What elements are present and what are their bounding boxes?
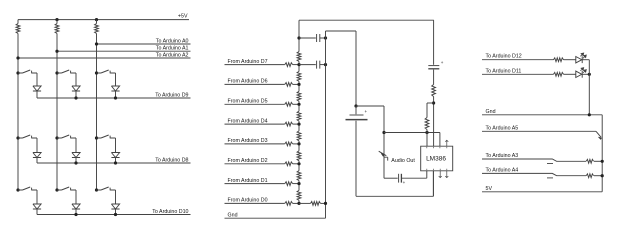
svg-text:To Arduino D8: To Arduino D8 (155, 157, 188, 163)
wire diode D22 to row line (75, 158, 77, 164)
svg-text:To Arduino D10: To Arduino D10 (152, 209, 188, 215)
resistor R ladder 3 (297, 91, 301, 101)
wire R12 to LED2 (564, 73, 576, 75)
wire from Arduino D1 (225, 183, 285, 185)
junction coupling cap node (354, 104, 357, 107)
wire Gnd rail right (482, 114, 602, 116)
resistor 2R terminator (311, 202, 321, 206)
capacitor C3 bottom plate (346, 119, 368, 121)
wire resistor D6 to bus (293, 83, 299, 85)
resistor R9 (432, 85, 436, 97)
junction switch S12 to column (55, 71, 58, 74)
wire diode D12 to row line (75, 91, 77, 98)
junction column 3 to +5V rail (95, 18, 98, 21)
svg-text:To Arduino D9: To Arduino D9 (155, 92, 188, 98)
diode D32 (72, 204, 80, 209)
wire supply drop (433, 20, 435, 65)
junction ground line terminator (324, 202, 327, 205)
junction ground line C1 (324, 36, 327, 39)
svg-text:+: + (403, 180, 406, 185)
pin LM386 top 3 (439, 133, 441, 147)
switch S13 contact and wire to diode (110, 71, 115, 86)
wire to Arduino A0 (97, 43, 191, 45)
potentiometer RV1 wiper arrowhead (598, 137, 601, 140)
svg-text:From Arduino D3: From Arduino D3 (228, 138, 268, 144)
svg-text:To Arduino A1: To Arduino A1 (156, 46, 189, 52)
wire bus segment 2b (298, 81, 300, 84)
capacitor C1 plates (317, 34, 320, 42)
junction column 2 to +5V rail (55, 18, 58, 21)
wire +5V rail (18, 19, 189, 21)
wire bus segment 2 (298, 65, 300, 72)
switch S31 contact and wire to diode (32, 188, 37, 204)
svg-text:From Arduino D5: From Arduino D5 (228, 99, 268, 105)
wire LED1 to vertical (583, 59, 590, 61)
switch S21 lever (18, 135, 30, 138)
capacitor C3 top plate (350, 114, 364, 116)
svg-text:From Arduino D4: From Arduino D4 (228, 118, 268, 124)
junction switch S31 to column (16, 188, 19, 191)
LED LED1 arrow 1 (580, 53, 583, 56)
junction bus node D0 (297, 202, 300, 205)
switch SW10 contact bar (547, 163, 553, 165)
switch S33 contact and wire to diode (110, 188, 115, 204)
diode D13 (111, 86, 119, 91)
junction col3/A0 (95, 42, 98, 45)
wire bus to capacitor C1 (299, 37, 316, 39)
wire R13 to 5V vertical (594, 160, 602, 162)
wire to Arduino A5 (482, 130, 596, 132)
resistor R ladder 7 (297, 171, 301, 181)
switch S12 lever (57, 70, 69, 73)
wire resistor D3 to bus (293, 143, 299, 145)
resistor R ladder 1 (297, 52, 301, 62)
svg-text:To Arduino D12: To Arduino D12 (486, 54, 522, 60)
resistor 2R D3 (285, 142, 293, 146)
wire bus segment 3 (298, 84, 300, 91)
switch S23 lever (97, 135, 109, 138)
switch S32 lever (57, 187, 69, 190)
wire resistor D2 to bus (293, 163, 299, 165)
wire to gain resistor (427, 102, 434, 104)
junction bus node D3 (297, 142, 300, 145)
junction bus node D7 (297, 63, 300, 66)
wire to Arduino A4 with switch jog (482, 173, 586, 175)
wire DAC output top (299, 19, 434, 21)
wire ground line vertical (325, 31, 327, 218)
svg-text:To Arduino A5: To Arduino A5 (486, 125, 519, 131)
resistor R ladder 6 (297, 151, 301, 161)
pin stub LM386 top 4 (445, 140, 448, 146)
junction bus node D5 (297, 103, 300, 106)
svg-text:From Arduino D0: From Arduino D0 (228, 198, 268, 204)
pin stub LM386 bottom 4 (445, 171, 448, 178)
resistor R ladder 2 (297, 71, 301, 81)
wire bus segment 7 (298, 164, 300, 171)
svg-text:From Arduino D1: From Arduino D1 (228, 178, 268, 184)
capacitor C3 top lead (355, 106, 357, 114)
junction bus node D1 (297, 182, 300, 185)
wire row to Arduino D9 (37, 97, 191, 99)
resistor 2R D2 (285, 162, 293, 166)
wire column 2 (56, 20, 58, 190)
wire audio to gain node and LM386 top pin 3 (384, 132, 440, 134)
wire resistor D4 to bus (293, 123, 299, 125)
resistor 2R D6 (285, 83, 293, 87)
wire cap node to audio tap (356, 105, 384, 107)
wire bus segment 4b (298, 121, 300, 124)
switch SW11 contact bar (547, 177, 553, 179)
resistor 2R D4 (285, 122, 293, 126)
junction switch S13 to column (95, 71, 98, 74)
capacitor C4 top plate (428, 65, 439, 67)
wire from Arduino D5 (225, 103, 285, 105)
junction gain node (425, 131, 428, 134)
wire D0 node to terminator (299, 202, 311, 204)
junction col2/A1 (55, 50, 58, 53)
terminal Audio Out hook (384, 157, 388, 160)
wire terminator to ground line (321, 202, 326, 204)
diode D23 (111, 153, 119, 158)
resistor R11 (554, 58, 564, 62)
capacitor C5 plate right (400, 174, 402, 183)
svg-text:From Arduino D7: From Arduino D7 (228, 59, 268, 65)
junction bus node D6 (297, 83, 300, 86)
wire right vertical (601, 115, 603, 192)
wire bus segment 5 (298, 124, 300, 131)
LED LED2 triangle (576, 71, 582, 77)
resistor R ladder 5 (297, 131, 301, 141)
wire capacitor C2 to ground line (320, 64, 326, 66)
svg-text:From Arduino D6: From Arduino D6 (228, 79, 268, 85)
svg-text:+: + (365, 109, 368, 114)
wire R11 to LED1 (564, 59, 576, 61)
wire 5V rail right (482, 191, 602, 193)
wire column 3 (96, 20, 98, 190)
wire R10 to LM386 top pin 1 (426, 130, 428, 147)
switch S32 contact and wire to diode (71, 188, 76, 204)
switch S12 contact and wire to diode (71, 71, 76, 86)
svg-text:To Arduino A3: To Arduino A3 (486, 153, 519, 159)
svg-text:From Arduino D2: From Arduino D2 (228, 158, 268, 164)
wire from Arduino D6 (225, 83, 285, 85)
resistor pull-up column 3 (95, 24, 99, 34)
wire resistor D7 to bus (293, 64, 299, 66)
wire bus segment 6 (298, 144, 300, 151)
wire C4 to R9 (433, 70, 435, 85)
wire row to Arduino D10 (37, 214, 191, 216)
resistor 2R D0 (285, 202, 293, 206)
terminal Audio Out arrow shaft (379, 151, 387, 156)
junction bus node D2 (297, 162, 300, 165)
resistor pull-up column 2 (55, 24, 59, 34)
wire bus segment 1b (298, 62, 300, 65)
resistor R ladder 4 (297, 111, 301, 121)
wire bus segment 6b (298, 161, 300, 164)
wire bus to capacitor C2 (299, 64, 316, 66)
resistor pull-up column 1 (16, 24, 20, 34)
svg-text:To Arduino A4: To Arduino A4 (486, 167, 519, 173)
wire audio tap vertical (383, 106, 385, 178)
LED LED2 arrow 1 (580, 68, 583, 71)
resistor 2R D1 (285, 182, 293, 186)
svg-text:Gnd: Gnd (228, 212, 238, 218)
junction row D8 col3 (114, 161, 117, 164)
pin LM386 bottom 2 (432, 171, 434, 197)
wire output cap right segment (401, 177, 426, 179)
junction Gnd/LED vertical (588, 113, 591, 116)
wire column 1 (17, 20, 19, 190)
junction row D10 col2 (74, 213, 77, 216)
wire bus segment 8 (298, 184, 300, 191)
resistor R13 (586, 159, 593, 163)
wire bus segment 7b (298, 181, 300, 184)
diode D11 (33, 86, 41, 91)
junction col1/A2 (16, 56, 19, 59)
capacitor C5 plate left (398, 174, 400, 183)
wire to Arduino D11 (482, 73, 554, 75)
wire from Arduino D7 (225, 64, 285, 66)
wire bus segment 5b (298, 141, 300, 144)
wire capacitor C1 to ground line (320, 37, 326, 39)
pin marks LM386 bottom inside (427, 169, 447, 171)
switch S11 contact and wire to diode (32, 71, 37, 86)
LED LED1 arrow 2 (583, 55, 586, 58)
pin marks LM386 top inside (427, 147, 447, 149)
svg-text:Audio Out: Audio Out (391, 158, 415, 164)
resistor R12 (554, 72, 564, 76)
wire bus top segment (298, 20, 300, 51)
wire LED vertical to Gnd (588, 60, 590, 115)
diode D33 (111, 204, 119, 209)
capacitor C4 bottom plate (428, 68, 439, 70)
wire to Arduino A3 with switch jog (482, 159, 586, 161)
wire resistor D1 to bus (293, 183, 299, 185)
junction bus node D4 (297, 123, 300, 126)
wire diode D23 to row line (115, 158, 117, 164)
switch S31 lever (18, 187, 30, 190)
capacitor C2 plates (317, 61, 320, 69)
wire from Arduino D2 (225, 163, 285, 165)
junction row D8 col2 (74, 161, 77, 164)
junction row D10 col3 (114, 213, 117, 216)
wire row to Arduino D8 (37, 162, 191, 164)
LED LED2 arrow 2 (583, 70, 586, 73)
junction switch S21 to column (16, 136, 19, 139)
switch S13 lever (97, 70, 109, 73)
junction R14/5V (601, 174, 604, 177)
wire gain resistor top lead (426, 103, 428, 118)
svg-text:Gnd: Gnd (486, 109, 496, 115)
svg-text:To Arduino A0: To Arduino A0 (156, 38, 189, 44)
diode D21 (33, 153, 41, 158)
wire R14 to 5V vertical (594, 175, 602, 177)
junction ground line C2 (324, 63, 327, 66)
diode D22 (72, 153, 80, 158)
resistor 2R D7 (285, 63, 293, 67)
wire to Arduino A1 (57, 50, 191, 52)
junction R9/R10 node (432, 101, 435, 104)
resistor R10 gain (425, 118, 429, 130)
junction switch S22 to column (55, 136, 58, 139)
LED LED2 cathode bar (581, 71, 583, 78)
LED LED1 cathode bar (581, 56, 583, 63)
junction switch S11 to column (16, 71, 19, 74)
op-amp U1 LM386 body (421, 146, 453, 171)
resistor 2R D5 (285, 102, 293, 106)
svg-text:To Arduino D11: To Arduino D11 (486, 68, 522, 74)
wire output cap left segment (384, 177, 398, 179)
wire ground line to coupling cap (326, 31, 357, 106)
wire bus segment 8b (298, 200, 300, 203)
switch S33 lever (97, 187, 109, 190)
wire C3 to LM386 bottom pin 2 (356, 171, 433, 197)
junction audio tap (382, 131, 385, 134)
junction switch S32 to column (55, 188, 58, 191)
wire from Arduino D4 (225, 123, 285, 125)
wire diode D13 to row line (115, 91, 117, 98)
svg-text:LM386: LM386 (426, 156, 446, 163)
wire diode D31 to row line (36, 209, 38, 215)
junction switch S33 to column (95, 188, 98, 191)
wire bus segment 4 (298, 104, 300, 111)
svg-text:5V: 5V (486, 186, 493, 192)
junction LED cathodes (588, 73, 591, 76)
wire LED2 to vertical (583, 73, 590, 75)
resistor R14 (586, 174, 593, 178)
switch S23 contact and wire to diode (110, 136, 115, 153)
junction R13/5V (601, 160, 604, 163)
wire capacitor C3 bottom lead (355, 121, 357, 197)
switch S22 contact and wire to diode (71, 136, 76, 153)
junction row D9 col3 (114, 96, 117, 99)
wire to Arduino A2 (18, 57, 191, 59)
potentiometer RV1 wiper shaft (596, 131, 601, 137)
LED LED1 triangle (576, 57, 582, 63)
resistor R ladder 8 (297, 190, 301, 200)
pin LM386 bottom 1 (426, 171, 428, 178)
terminal Audio Out arrowhead (381, 153, 385, 156)
switch S22 lever (57, 135, 69, 138)
junction switch S23 to column (95, 136, 98, 139)
wire from Arduino D0 (225, 202, 285, 204)
diode D31 (33, 204, 41, 209)
svg-text:To Arduino A2: To Arduino A2 (156, 52, 189, 58)
junction row D9 col2 (74, 96, 77, 99)
wire from Arduino D3 (225, 143, 285, 145)
wire diode D21 to row line (36, 158, 38, 164)
wire resistor D0 to bus (293, 202, 299, 204)
wire diode D11 to row line (36, 91, 38, 98)
switch S11 lever (18, 70, 30, 73)
diode D12 (72, 86, 80, 91)
wire bus segment 3b (298, 101, 300, 104)
wire resistor D5 to bus (293, 103, 299, 105)
svg-text:+5V: +5V (178, 14, 188, 20)
switch S21 contact and wire to diode (32, 136, 37, 153)
pin stub LM386 bottom 3 (439, 171, 442, 178)
wire diode D32 to row line (75, 209, 77, 215)
wire to Arduino D12 (482, 59, 554, 61)
junction bus cap C1 (297, 36, 300, 39)
svg-text:+: + (441, 60, 444, 65)
wire R9 to LM386 top pin 2 (433, 97, 435, 147)
wire diode D33 to row line (115, 209, 117, 215)
wire Gnd rail middle (225, 217, 326, 219)
